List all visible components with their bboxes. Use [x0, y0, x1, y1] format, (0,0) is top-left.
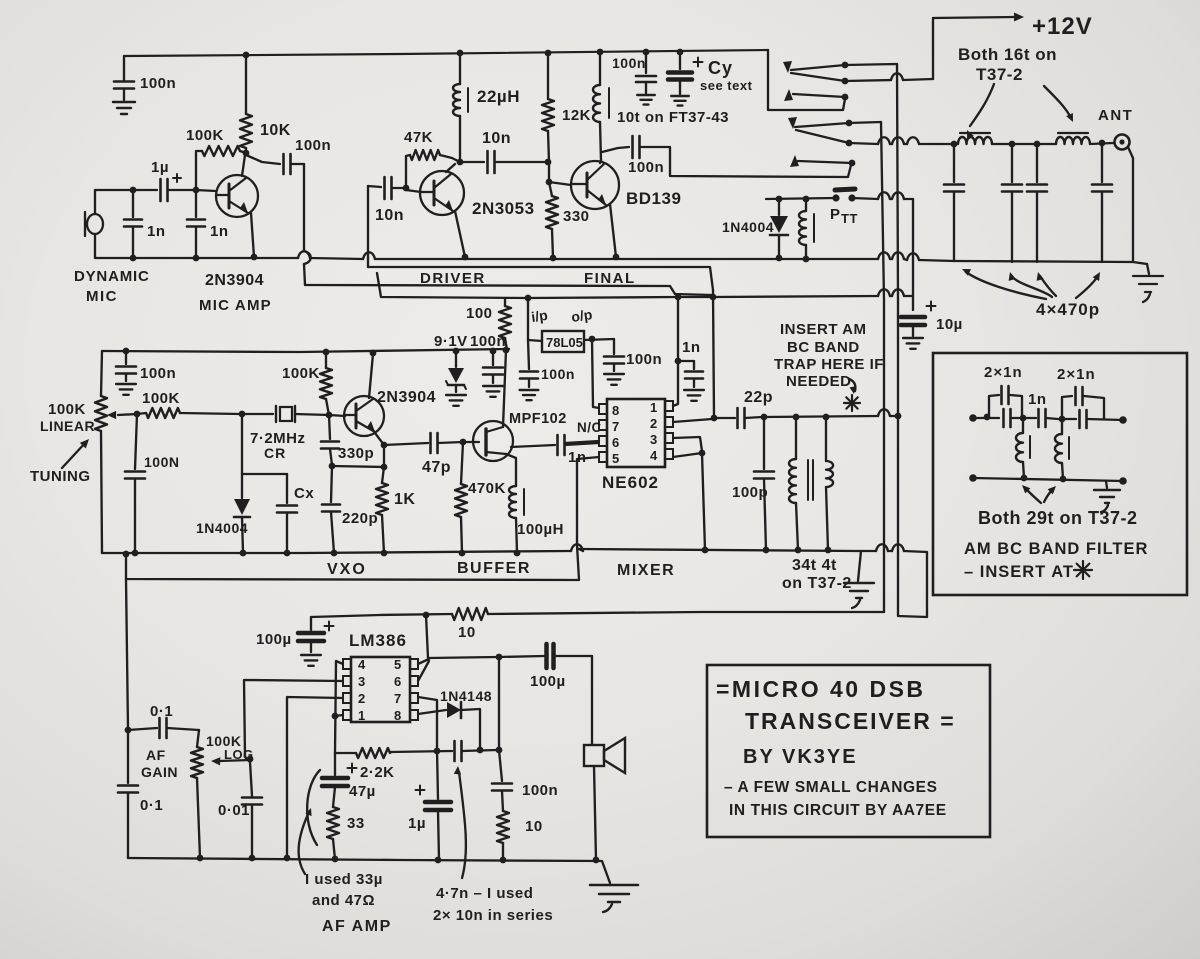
svg-text:DYNAMIC: DYNAMIC	[74, 268, 150, 285]
svg-text:10n: 10n	[482, 130, 511, 147]
capacitor 100p	[763, 417, 765, 469]
inductor 22uH (driver choke)	[459, 53, 461, 84]
capacitor 470p #1	[953, 144, 955, 182]
svg-text:NEEDED: NEEDED	[786, 373, 852, 390]
wire mic amp output down to audio rail	[303, 164, 305, 251]
node Q1 base node	[193, 187, 200, 194]
svg-text:1N4004: 1N4004	[722, 219, 774, 235]
svg-text:N/C: N/C	[577, 420, 602, 435]
inductor 10t FT37-43 (final choke)	[599, 52, 601, 85]
svg-text:BUFFER: BUFFER	[457, 560, 531, 577]
node 9V rail 100n	[490, 348, 497, 355]
capacitor 470p #2	[1009, 141, 1016, 148]
node vxo rail Cx	[284, 550, 291, 557]
node AF input	[125, 727, 132, 734]
resistor 470K (gate leak)	[461, 442, 463, 484]
svg-text:100K: 100K	[282, 365, 320, 382]
wire AF input vertical	[126, 579, 128, 729]
svg-text:330: 330	[563, 208, 590, 225]
wire 78L05 output	[584, 339, 614, 340]
arrow trap insert	[849, 379, 855, 391]
node mixer rail pin45	[702, 547, 709, 554]
node output zobel tap	[496, 654, 503, 661]
capacitor 1u (mic coupling)	[140, 189, 157, 191]
wire source to 1n	[511, 445, 555, 447]
wire TXB rail (driver in to mixer out)	[368, 267, 713, 290]
resistor 1K (VXO emitter)	[383, 445, 385, 467]
node filter gnd coil2	[1060, 476, 1067, 483]
node transformer secondary top	[823, 414, 830, 421]
svg-text:see text: see text	[700, 78, 753, 93]
wire 12K to base node	[548, 162, 550, 181]
arrow to coil2	[1044, 86, 1071, 118]
speaker	[591, 656, 593, 744]
svg-text:4: 4	[650, 448, 658, 463]
brace 47u-33 note	[307, 770, 320, 845]
svg-text:100n: 100n	[612, 55, 646, 71]
wire audio return to AF amp	[126, 545, 579, 580]
node af rail 1u	[435, 857, 442, 864]
svg-text:TRAP HERE IF: TRAP HERE IF	[774, 356, 884, 373]
svg-text:10t on FT37-43: 10t on FT37-43	[617, 109, 729, 126]
svg-text:1µ: 1µ	[408, 815, 426, 832]
svg-text:3: 3	[650, 432, 658, 447]
svg-text:0·01: 0·01	[218, 802, 250, 819]
inductor 4t secondary	[825, 417, 827, 461]
wire bus V1 (TX/RX)	[881, 122, 884, 612]
svg-text:and 47Ω: and 47Ω	[312, 892, 375, 909]
svg-text:100n: 100n	[626, 351, 662, 368]
arrow to coil1	[970, 84, 994, 126]
svg-text:MIC AMP: MIC AMP	[199, 297, 272, 314]
resistor 330 (final bias lower)	[549, 182, 552, 196]
node 22p out	[761, 414, 768, 421]
wire 1a to bus V2	[845, 64, 897, 65]
wire PTT line	[766, 198, 835, 199]
svg-text:100K: 100K	[186, 127, 224, 144]
filter series cap A1	[1002, 409, 1005, 427]
node 9V rail zener	[453, 348, 460, 355]
node junction top rail at Cy	[677, 49, 684, 56]
node filter junction B	[1059, 416, 1066, 423]
wire varactor to Cx	[242, 473, 287, 475]
svg-text:100n: 100n	[140, 365, 176, 382]
svg-text:Cx: Cx	[294, 485, 314, 502]
node af rail pin2	[284, 855, 291, 862]
wire driver input from TXB rail	[367, 186, 369, 267]
filter bridge cap A	[989, 395, 999, 417]
inductor 34t primary	[795, 417, 797, 459]
node rail A Q1 emitter	[251, 254, 258, 261]
svg-text:2: 2	[358, 691, 366, 706]
svg-text:100K: 100K	[142, 390, 180, 407]
svg-text:NE602: NE602	[602, 473, 659, 492]
svg-text:10: 10	[525, 818, 543, 835]
wire 330p node to emitter node	[332, 466, 384, 467]
svg-text:34t 4t: 34t 4t	[792, 557, 837, 574]
wire Q4 emitter	[375, 433, 384, 445]
filter main line left	[973, 417, 999, 419]
node mixer rail 100p	[763, 547, 770, 554]
arrow 29t b	[1044, 489, 1053, 502]
node junction top rail at choke	[597, 49, 604, 56]
node tuning cap	[134, 411, 141, 418]
capacitor 220p	[331, 466, 332, 502]
svg-text:2×1n: 2×1n	[984, 364, 1023, 381]
switch contact 2a	[795, 123, 849, 127]
svg-text:+12V: +12V	[1032, 13, 1093, 40]
arrow tuning	[62, 442, 86, 468]
node vxo rail 470K	[459, 550, 466, 557]
svg-text:10µ: 10µ	[936, 316, 963, 333]
node vxo rail 220p	[331, 550, 338, 557]
svg-text:Cy: Cy	[708, 58, 733, 78]
svg-text:100n: 100n	[295, 137, 331, 154]
svg-text:MPF102: MPF102	[509, 411, 567, 427]
node 9V rail Q4 collector	[370, 350, 377, 357]
ground AF	[590, 884, 638, 887]
svg-text:o/p: o/p	[570, 306, 593, 325]
node vxo rail varactor	[240, 550, 247, 557]
node emitter-47p junction	[381, 442, 388, 449]
svg-text:MIC: MIC	[86, 288, 118, 305]
transistor Q1 2N3904 mic amp	[216, 175, 258, 217]
node final base node	[546, 179, 553, 186]
wire mixer rail ground drop	[858, 551, 861, 581]
node junction top rail at 10K	[243, 52, 250, 59]
svg-text:12K: 12K	[562, 107, 591, 124]
svg-text:22p: 22p	[744, 389, 773, 406]
capacitor 100n (9V bypass)	[492, 351, 494, 365]
node vxo rail 100uH	[514, 550, 521, 557]
ground LPF right	[1147, 264, 1149, 274]
asterisk trap insert point	[844, 402, 860, 404]
resistor 100K (VXO bias)	[325, 352, 327, 368]
svg-text:TRANSCEIVER =: TRANSCEIVER =	[745, 708, 956, 734]
node zobel row join	[496, 747, 503, 754]
inductor 16t T37-2 #2	[1056, 137, 1090, 144]
svg-text:1N4004: 1N4004	[196, 520, 248, 536]
svg-text:1µ: 1µ	[151, 159, 169, 176]
svg-text:100n: 100n	[628, 159, 664, 176]
voltage regulator 78L05	[527, 298, 529, 339]
node vxo rail 100n	[132, 550, 139, 557]
arrow 470p a	[966, 272, 1046, 299]
svg-text:TUNING: TUNING	[30, 468, 91, 485]
capacitor 22p	[714, 417, 735, 419]
svg-text:2: 2	[650, 416, 658, 431]
node gate node	[460, 439, 467, 446]
capacitor 4.7n (feedback)	[453, 741, 456, 761]
node junction top rail at 22uH	[457, 50, 464, 57]
wire to antenna	[1090, 143, 1113, 144]
wire AF +12 rail	[311, 614, 452, 617]
capacitor 1n (pin1 bypass)	[678, 360, 694, 362]
wire pin2 to 22p	[673, 419, 712, 422]
ground mixer	[844, 582, 874, 584]
potentiometer 100K LINEAR	[101, 351, 102, 396]
node rail A mic cap1	[130, 255, 137, 262]
node 330p-220p junction	[329, 463, 336, 470]
node wiper tap	[247, 756, 254, 763]
svg-text:4×470p: 4×470p	[1036, 300, 1100, 319]
node driver base node	[403, 185, 410, 192]
resistor 2.2K (feedback)	[335, 752, 356, 754]
zener diode 9.1V	[455, 351, 457, 367]
svg-text:470K: 470K	[468, 480, 506, 497]
capacitor 470p #3	[1034, 141, 1041, 148]
ground filter	[1106, 481, 1107, 488]
transistor Q5 MPF102 buffer FET	[473, 421, 513, 461]
capacitor 1n (mic filter 1)	[132, 190, 134, 217]
capacitor 100n (zobel)	[499, 750, 502, 781]
wire base link	[196, 190, 216, 191]
wire pin4	[673, 453, 702, 457]
wire 2a to bus V1	[849, 122, 881, 123]
switch contact 1a	[791, 65, 845, 70]
svg-text:2× 10n in series: 2× 10n in series	[433, 907, 553, 924]
svg-text:Both 29t on T37-2: Both 29t on T37-2	[978, 508, 1138, 528]
node mixer rail 4t	[825, 547, 832, 554]
svg-text:2·2K: 2·2K	[360, 764, 395, 781]
node vxo rail audio drop	[123, 551, 130, 558]
node +12 rail 78L05 riser	[525, 295, 532, 302]
diode 1N4148	[418, 710, 446, 714]
svg-text:– INSERT AT: – INSERT AT	[964, 563, 1074, 581]
svg-text:BD139: BD139	[626, 189, 681, 208]
node filter junction A	[1020, 415, 1027, 422]
svg-text:100µ: 100µ	[530, 673, 566, 690]
svg-text:1: 1	[358, 708, 366, 723]
svg-text:22µH: 22µH	[477, 87, 520, 106]
node vxo rail 1K	[381, 550, 388, 557]
inductor 16t T37-2 #1	[958, 137, 992, 144]
capacitor 100u (AF supply)	[310, 617, 312, 630]
transistor Q2 2N3053 driver	[420, 171, 464, 215]
svg-text:47K: 47K	[404, 129, 433, 146]
filter bridge cap B	[1062, 396, 1072, 418]
wire Q3 collector	[600, 160, 601, 163]
resistor 100 (9V dropper)	[504, 298, 506, 306]
filter box	[933, 353, 1187, 595]
node junction top rail at 100n	[643, 49, 650, 56]
svg-text:MIXER: MIXER	[617, 562, 675, 579]
capacitor 1n (osc injection)	[556, 435, 559, 455]
switch contact 1c	[784, 89, 793, 101]
diode 1N4004 varactor	[241, 414, 243, 498]
svg-text:BC BAND: BC BAND	[787, 339, 860, 356]
IC U2 LM386 AF amp	[351, 657, 410, 722]
node 9V rail 100n left	[123, 348, 130, 355]
wire bus V3 (to 10u)	[912, 199, 914, 310]
svg-text:Both 16t on: Both 16t on	[958, 45, 1057, 64]
switch blade 2b	[796, 130, 849, 143]
capacitor 0.1 (AF coupling)	[128, 728, 157, 730]
wire ground rail A (main)	[95, 257, 298, 259]
node transformer primary top	[793, 414, 800, 421]
potentiometer 100K LOG AF GAIN	[197, 730, 199, 747]
wire Q1 emitter	[251, 213, 254, 257]
svg-text:2×1n: 2×1n	[1057, 366, 1096, 383]
node af rail zobel	[500, 857, 507, 864]
svg-text:1K: 1K	[394, 491, 415, 508]
svg-text:– A FEW SMALL CHANGES: – A FEW SMALL CHANGES	[724, 779, 938, 796]
svg-text:=MICRO 40 DSB: =MICRO 40 DSB	[716, 676, 926, 702]
svg-text:0·1: 0·1	[150, 703, 173, 720]
node filter gnd coil1	[1021, 475, 1028, 482]
node 78L05 output	[589, 336, 596, 343]
svg-text:1n: 1n	[147, 223, 166, 240]
wire TXB vertical (mixer out to driver)	[713, 290, 714, 417]
node varactor top	[239, 411, 246, 418]
svg-text:VXO: VXO	[327, 561, 367, 578]
asterisk filter	[1074, 569, 1092, 571]
pot wiper arrow	[118, 414, 137, 415]
node mic input	[130, 187, 137, 194]
svg-text:IN THIS CIRCUIT BY AA7EE: IN THIS CIRCUIT BY AA7EE	[729, 802, 947, 819]
wire pin6 to supply	[418, 661, 429, 681]
svg-text:10n: 10n	[375, 207, 404, 224]
wire pin2 to ground	[287, 697, 343, 858]
capacitor 100n (mic amp output)	[246, 155, 280, 164]
wire pin5 audio out	[577, 457, 599, 545]
svg-text:78L05: 78L05	[546, 335, 583, 350]
wire PTT to bus V3	[852, 198, 878, 199]
svg-text:6: 6	[612, 435, 620, 450]
resistor 10 (AF supply)	[452, 608, 488, 620]
wire pin8 feed	[592, 339, 599, 408]
svg-text:8: 8	[394, 708, 402, 723]
node pin1 tap	[332, 713, 339, 720]
svg-text:7: 7	[394, 691, 402, 706]
svg-text:CR: CR	[264, 445, 286, 461]
svg-text:1n: 1n	[1028, 391, 1047, 408]
node 12K-10n junction	[545, 159, 552, 166]
resistor 100K (tuning)	[137, 413, 146, 414]
node 9V rail 100K	[323, 349, 330, 356]
node PTT line diode	[776, 196, 783, 203]
node af rail speaker	[593, 857, 600, 864]
filter series cap 1n	[1023, 417, 1036, 419]
capacitor 100u (output coupling)	[544, 644, 549, 668]
wire AF ground rail	[128, 858, 610, 883]
inductor 29t #1	[1022, 418, 1024, 433]
svg-text:100: 100	[466, 305, 493, 322]
capacitor 1u (pin7 bypass)	[418, 697, 437, 750]
wire +12 mixer rail	[377, 273, 528, 298]
wire switch group1 feed from +12 rail	[768, 50, 845, 110]
capacitor 100n (VXO supply)	[125, 351, 127, 364]
capacitor 0.01 (wiper)	[245, 757, 252, 796]
svg-text:FINAL: FINAL	[584, 270, 636, 287]
capacitor Cy electrolytic	[679, 52, 681, 69]
node rail A coil	[803, 256, 810, 263]
resistor 10K (mic amp collector)	[245, 55, 247, 114]
arrow 29t a	[1025, 488, 1041, 503]
wire +12 mixer rail right	[528, 296, 878, 298]
svg-text:1: 1	[650, 400, 658, 415]
wire mixer ground rail	[579, 549, 876, 551]
svg-text:33: 33	[347, 815, 365, 832]
node af rail 0.01	[249, 855, 256, 862]
wire Q4 base lead	[329, 415, 345, 416]
svg-text:AM BC BAND FILTER: AM BC BAND FILTER	[964, 540, 1148, 558]
switch blade 1b	[791, 73, 845, 81]
wire pin5 to output node	[418, 659, 429, 664]
node +12 rail pin1 riser	[675, 294, 682, 301]
wire pin6 from 1n	[565, 441, 599, 443]
svg-text:P: P	[830, 206, 841, 223]
svg-text:100µH: 100µH	[517, 521, 564, 538]
resistor 10 (zobel)	[497, 811, 509, 843]
capacitor 10u electrolytic (switch line)	[901, 315, 925, 320]
IC U1 NE602 mixer	[607, 399, 665, 467]
capacitor 470p #4	[1099, 140, 1106, 147]
svg-text:47µ: 47µ	[349, 783, 376, 800]
node +12 rail TXB vertical	[710, 294, 717, 301]
svg-text:100n: 100n	[522, 782, 558, 799]
node pin1 1n tap	[675, 358, 682, 365]
svg-text:100n: 100n	[140, 75, 176, 92]
svg-text:330p: 330p	[338, 445, 374, 462]
wire pin1 riser	[673, 297, 678, 406]
node AF rail riser	[423, 612, 430, 619]
capacitor 1n (mic filter 2)	[195, 190, 197, 217]
svg-text:LM386: LM386	[349, 631, 407, 650]
antenna connector ANT	[1115, 135, 1130, 150]
wire AF rail to pins 5-6	[426, 615, 428, 658]
wire 9V rail	[102, 349, 509, 352]
node junction top rail at 12K	[545, 50, 552, 57]
wire Q1 collector	[242, 155, 245, 176]
arrow 470p c	[1040, 276, 1056, 296]
svg-text:100K: 100K	[48, 401, 86, 418]
wire pin1 lead	[335, 715, 343, 716]
wire antenna line (switch to LPF)	[849, 143, 878, 144]
wire +12V top rail	[124, 50, 768, 56]
svg-text:5: 5	[394, 657, 402, 672]
arrow 470p b	[1012, 276, 1052, 297]
wire pin3 input	[244, 680, 343, 757]
node af rail 33	[332, 856, 339, 863]
diode 1N4004 (relay clamp)	[778, 199, 780, 215]
transistor Q3 BD139 final	[571, 161, 619, 209]
node af rail pot	[197, 855, 204, 862]
node 9V rail drain	[503, 347, 510, 354]
svg-text:10K: 10K	[260, 122, 291, 139]
capacitor 100n (final output)	[602, 147, 629, 152]
wire Q2 collector	[446, 164, 455, 172]
svg-text:220p: 220p	[342, 510, 378, 527]
arrow 470p d	[1076, 276, 1098, 298]
svg-text:5: 5	[612, 451, 620, 466]
resistor 47K (driver bias)	[406, 155, 410, 188]
wire AF output line	[429, 656, 544, 658]
capacitor 330p	[329, 415, 330, 439]
svg-text:1n: 1n	[210, 223, 229, 240]
svg-text:8: 8	[612, 403, 620, 418]
svg-text:I used 33µ: I used 33µ	[305, 871, 383, 888]
svg-text:4: 4	[358, 657, 366, 672]
resistor 33 (gain)	[327, 807, 339, 839]
wire Q2 emitter	[455, 211, 465, 257]
node Q4 base	[326, 412, 333, 419]
svg-text:T37-2: T37-2	[976, 65, 1023, 84]
crystal 7.2MHz	[242, 413, 273, 415]
svg-text:i/p: i/p	[530, 307, 548, 325]
arrow 4.7n note	[459, 772, 466, 878]
relay coil	[805, 199, 807, 211]
